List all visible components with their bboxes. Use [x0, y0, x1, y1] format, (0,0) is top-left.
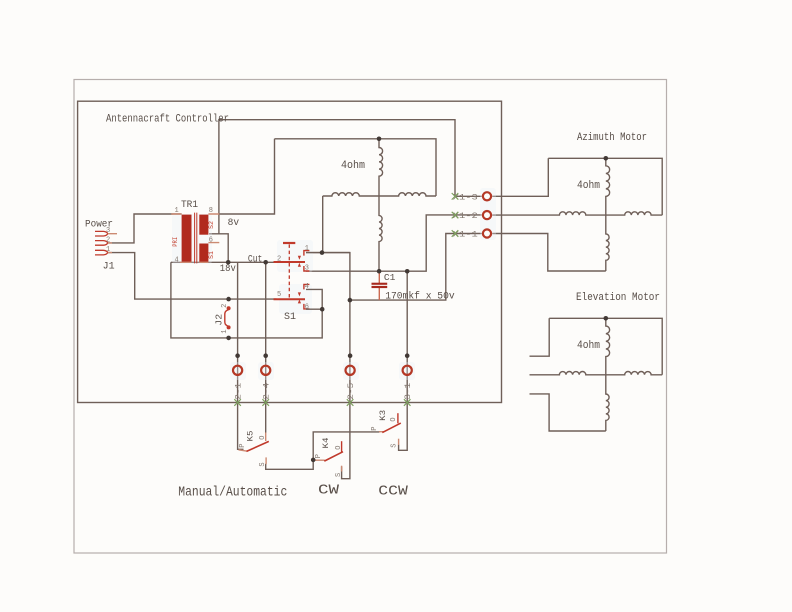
svg-text:TR1: TR1	[181, 200, 198, 211]
elevation motor frame top line	[549, 318, 662, 375]
svg-text:O: O	[259, 436, 267, 440]
K4 arm	[324, 452, 343, 461]
node pad X2-1 junction	[235, 353, 240, 358]
svg-text:2: 2	[106, 236, 110, 244]
S1 pole arm section 1	[274, 261, 306, 263]
pad X2-4 circle	[261, 366, 271, 400]
TR1 pin stubs	[171, 214, 219, 262]
transformer TR1	[171, 200, 219, 264]
S1 pin 3 hook	[304, 266, 310, 271]
TR1 secondary winding bar S1	[199, 244, 208, 263]
pad X2-5 circle	[346, 366, 356, 400]
faint select-highlight smudges	[172, 188, 496, 380]
K3 S stub	[398, 439, 400, 445]
svg-text:1: 1	[106, 246, 110, 254]
pad X2-1 circle	[233, 366, 243, 400]
wire X1-3 pad to azimuth motor top	[492, 158, 548, 196]
node azimuth motor top junction	[604, 156, 609, 161]
C1 lead upper	[378, 271, 380, 283]
svg-text:P: P	[315, 454, 323, 458]
svg-text:S1: S1	[284, 311, 296, 323]
svg-text:1: 1	[175, 207, 179, 215]
wire C1 minus rail to X1-1 and azimuth bottom	[350, 234, 482, 301]
K4 S stub	[341, 466, 343, 472]
J1 pin 1 socket	[95, 250, 108, 255]
cross at X1-3	[452, 193, 459, 200]
wire J1.2 to TR1.1	[108, 214, 182, 243]
S1 actuator dashed link	[288, 244, 290, 299]
svg-text:6: 6	[305, 303, 309, 311]
svg-text:CW: CW	[318, 483, 340, 499]
connector J1	[95, 231, 117, 255]
pad X3-1 circle	[403, 366, 413, 400]
S1 contact marks section 1	[298, 256, 301, 267]
svg-text:C1: C1	[384, 272, 396, 283]
cross at X2-4	[262, 399, 269, 406]
svg-text:3: 3	[106, 227, 110, 235]
wire 8v net TR1.8 to winding block	[219, 139, 274, 214]
svg-text:2-1: 2-1	[234, 383, 243, 400]
svg-text:S1: S1	[208, 251, 215, 259]
node C1 plus junction	[377, 269, 382, 274]
svg-text:4ohm: 4ohm	[577, 180, 600, 192]
relay contact K5	[239, 431, 269, 467]
svg-text:8: 8	[209, 207, 213, 215]
svg-text:4: 4	[305, 283, 309, 291]
K5 S stub	[265, 457, 267, 464]
node elevation motor top junction	[604, 316, 609, 321]
svg-text:4ohm: 4ohm	[577, 340, 600, 352]
TR1 primary winding bar PRI	[182, 215, 192, 263]
svg-text:3-1: 3-1	[404, 383, 413, 400]
wire winding block top line	[275, 139, 437, 196]
node J2.2 junction	[226, 297, 231, 302]
wire column 2 X2-4 down to K5.O	[265, 262, 267, 432]
J1 pin stubs	[108, 234, 117, 253]
K4 pole stub	[314, 459, 325, 461]
svg-text:S: S	[335, 473, 343, 477]
azimuth motor frame top line	[548, 158, 662, 215]
svg-text:1: 1	[305, 245, 309, 253]
capacitor C1	[372, 271, 455, 302]
wire X1-2 pad to azimuth motor middle coils	[492, 212, 662, 215]
svg-text:Elevation Motor: Elevation Motor	[576, 292, 660, 304]
cross at X1-1	[452, 230, 459, 237]
S1 pin 1 wire	[306, 252, 350, 254]
K3 O stub	[397, 413, 399, 423]
node column 4 tap junction	[405, 269, 410, 274]
svg-text:K5: K5	[246, 431, 256, 442]
C1 plate lower	[372, 286, 388, 288]
wire TR1.4 drop to lower rail and S1.6 loop	[171, 262, 322, 338]
node J2.1 junction	[226, 336, 231, 341]
azimuth motor rotor coils vertical	[606, 158, 610, 271]
K4 O stub	[341, 441, 343, 452]
svg-text:O: O	[390, 417, 398, 421]
wire column 4 X3-1 down to K3.S	[399, 271, 408, 450]
wire K5.S to K4.P node and over to K3.P	[266, 432, 380, 469]
node pad X3-1 junction	[405, 353, 410, 358]
svg-text:K3: K3	[378, 410, 388, 421]
svg-text:Manual/Automatic: Manual/Automatic	[178, 485, 287, 501]
svg-text:4ohm: 4ohm	[341, 160, 365, 172]
svg-text:1: 1	[221, 329, 229, 333]
TR1 secondary winding bar S2	[199, 215, 208, 235]
elevation motor inlet stub upper	[530, 318, 550, 356]
svg-text:6: 6	[209, 236, 213, 244]
relay contact K4	[314, 438, 343, 478]
svg-text:Antennacraft Controller: Antennacraft Controller	[106, 114, 229, 126]
svg-text:S2: S2	[208, 221, 215, 229]
elevation motor inlet stub lower and bottom line	[530, 394, 606, 431]
S1 pin 4 wire loop to pin 6	[306, 289, 322, 309]
K3 arm	[382, 423, 401, 433]
svg-text:8v: 8v	[228, 217, 240, 229]
C1 plate upper	[372, 283, 388, 285]
wire X1-1 pad to azimuth motor bottom	[492, 234, 606, 272]
elevation motor middle line with coils	[530, 372, 663, 375]
svg-text:J1: J1	[103, 260, 115, 272]
svg-text:Cut: Cut	[248, 254, 263, 265]
node S1.1 junction	[320, 250, 325, 255]
S1 actuator bar	[283, 242, 295, 244]
wire S1.3 net to C1 plus and X1-2	[306, 215, 482, 271]
drawing frame	[74, 80, 667, 554]
node pad X2-5 junction	[348, 353, 353, 358]
J1 pin 3 socket	[95, 231, 108, 236]
pad X1-3 circle	[453, 192, 491, 202]
wire 18v riser to top rail and down to X1-3	[219, 120, 455, 234]
cross at X2-1	[234, 399, 241, 406]
S1 pin 6 hook	[304, 304, 310, 309]
green pin-connection crosses	[234, 193, 458, 406]
node C1 minus junction	[348, 298, 353, 303]
J1 pin 2 socket	[95, 241, 108, 246]
winding L1 vertical with two coils	[379, 139, 383, 271]
elevation motor rotor coils vertical	[606, 318, 610, 431]
S1 pole arm section 2	[274, 298, 306, 300]
svg-text:2-5: 2-5	[347, 383, 356, 400]
K3 pole stub	[379, 431, 384, 433]
winding L2 L3 middle line with coils	[323, 193, 436, 196]
node Cut junction	[263, 260, 268, 265]
svg-text:4: 4	[175, 256, 179, 264]
jumper J2	[215, 304, 231, 334]
svg-text:O: O	[335, 446, 343, 450]
relay contact K3	[371, 410, 401, 448]
J2 pin 2 dot	[227, 306, 231, 310]
K5 O stub	[265, 433, 267, 442]
svg-text:S: S	[259, 462, 267, 466]
J2 body curve	[225, 310, 229, 327]
svg-text:18v: 18v	[220, 263, 236, 275]
K5 arm	[247, 441, 269, 451]
cross at X3-1	[404, 399, 411, 406]
svg-text:5: 5	[277, 291, 281, 299]
controller box outline	[78, 101, 502, 402]
cross at X1-2	[452, 212, 459, 219]
svg-text:P: P	[239, 444, 247, 448]
wire J1.1 to S1.5	[108, 253, 277, 300]
TR1 core lines	[195, 213, 197, 264]
svg-text:P: P	[371, 426, 379, 430]
cross at X2-5	[347, 399, 354, 406]
svg-text:CCW: CCW	[378, 484, 408, 500]
wire middle line left drop to S1.1 node	[322, 196, 324, 253]
S1 pin 1 hook	[304, 251, 310, 256]
node K4 pole junction	[311, 458, 316, 463]
K5 pole stub	[239, 450, 248, 451]
switch S1	[274, 243, 350, 323]
svg-text:2: 2	[221, 304, 229, 308]
wire TR1.6 jog to 18v node	[209, 234, 228, 262]
svg-text:Azimuth Motor: Azimuth Motor	[577, 132, 647, 144]
node winding block top junction	[377, 137, 382, 142]
wire 18v net TR1.4 to S1.2	[171, 261, 278, 263]
pad X1-2 circle	[453, 211, 491, 221]
svg-text:S: S	[391, 443, 399, 447]
J2 pin 1 dot	[227, 325, 231, 329]
wire X1-3 pin stub	[455, 195, 482, 197]
wire column 1 X2-1 down to K5.P	[238, 262, 244, 449]
node 18v junction	[226, 260, 231, 265]
svg-text:J2: J2	[215, 314, 225, 326]
svg-text:2: 2	[277, 255, 281, 263]
S1 pin 4 hook	[304, 284, 310, 289]
node pad X2-4 junction	[263, 353, 268, 358]
node S1.6 loop junction	[320, 307, 325, 312]
pad X1-1 circle	[453, 229, 491, 239]
svg-text:PRI: PRI	[172, 237, 179, 247]
svg-text:2-4: 2-4	[262, 383, 271, 400]
wire S1.1 net down column 3 to K4.S	[306, 253, 350, 479]
svg-text:170mkf x 50v: 170mkf x 50v	[385, 291, 455, 303]
C1 lead lower	[378, 288, 380, 300]
S1 contact marks section 2	[298, 292, 301, 303]
svg-text:3: 3	[305, 265, 309, 273]
svg-text:K4: K4	[321, 438, 331, 449]
